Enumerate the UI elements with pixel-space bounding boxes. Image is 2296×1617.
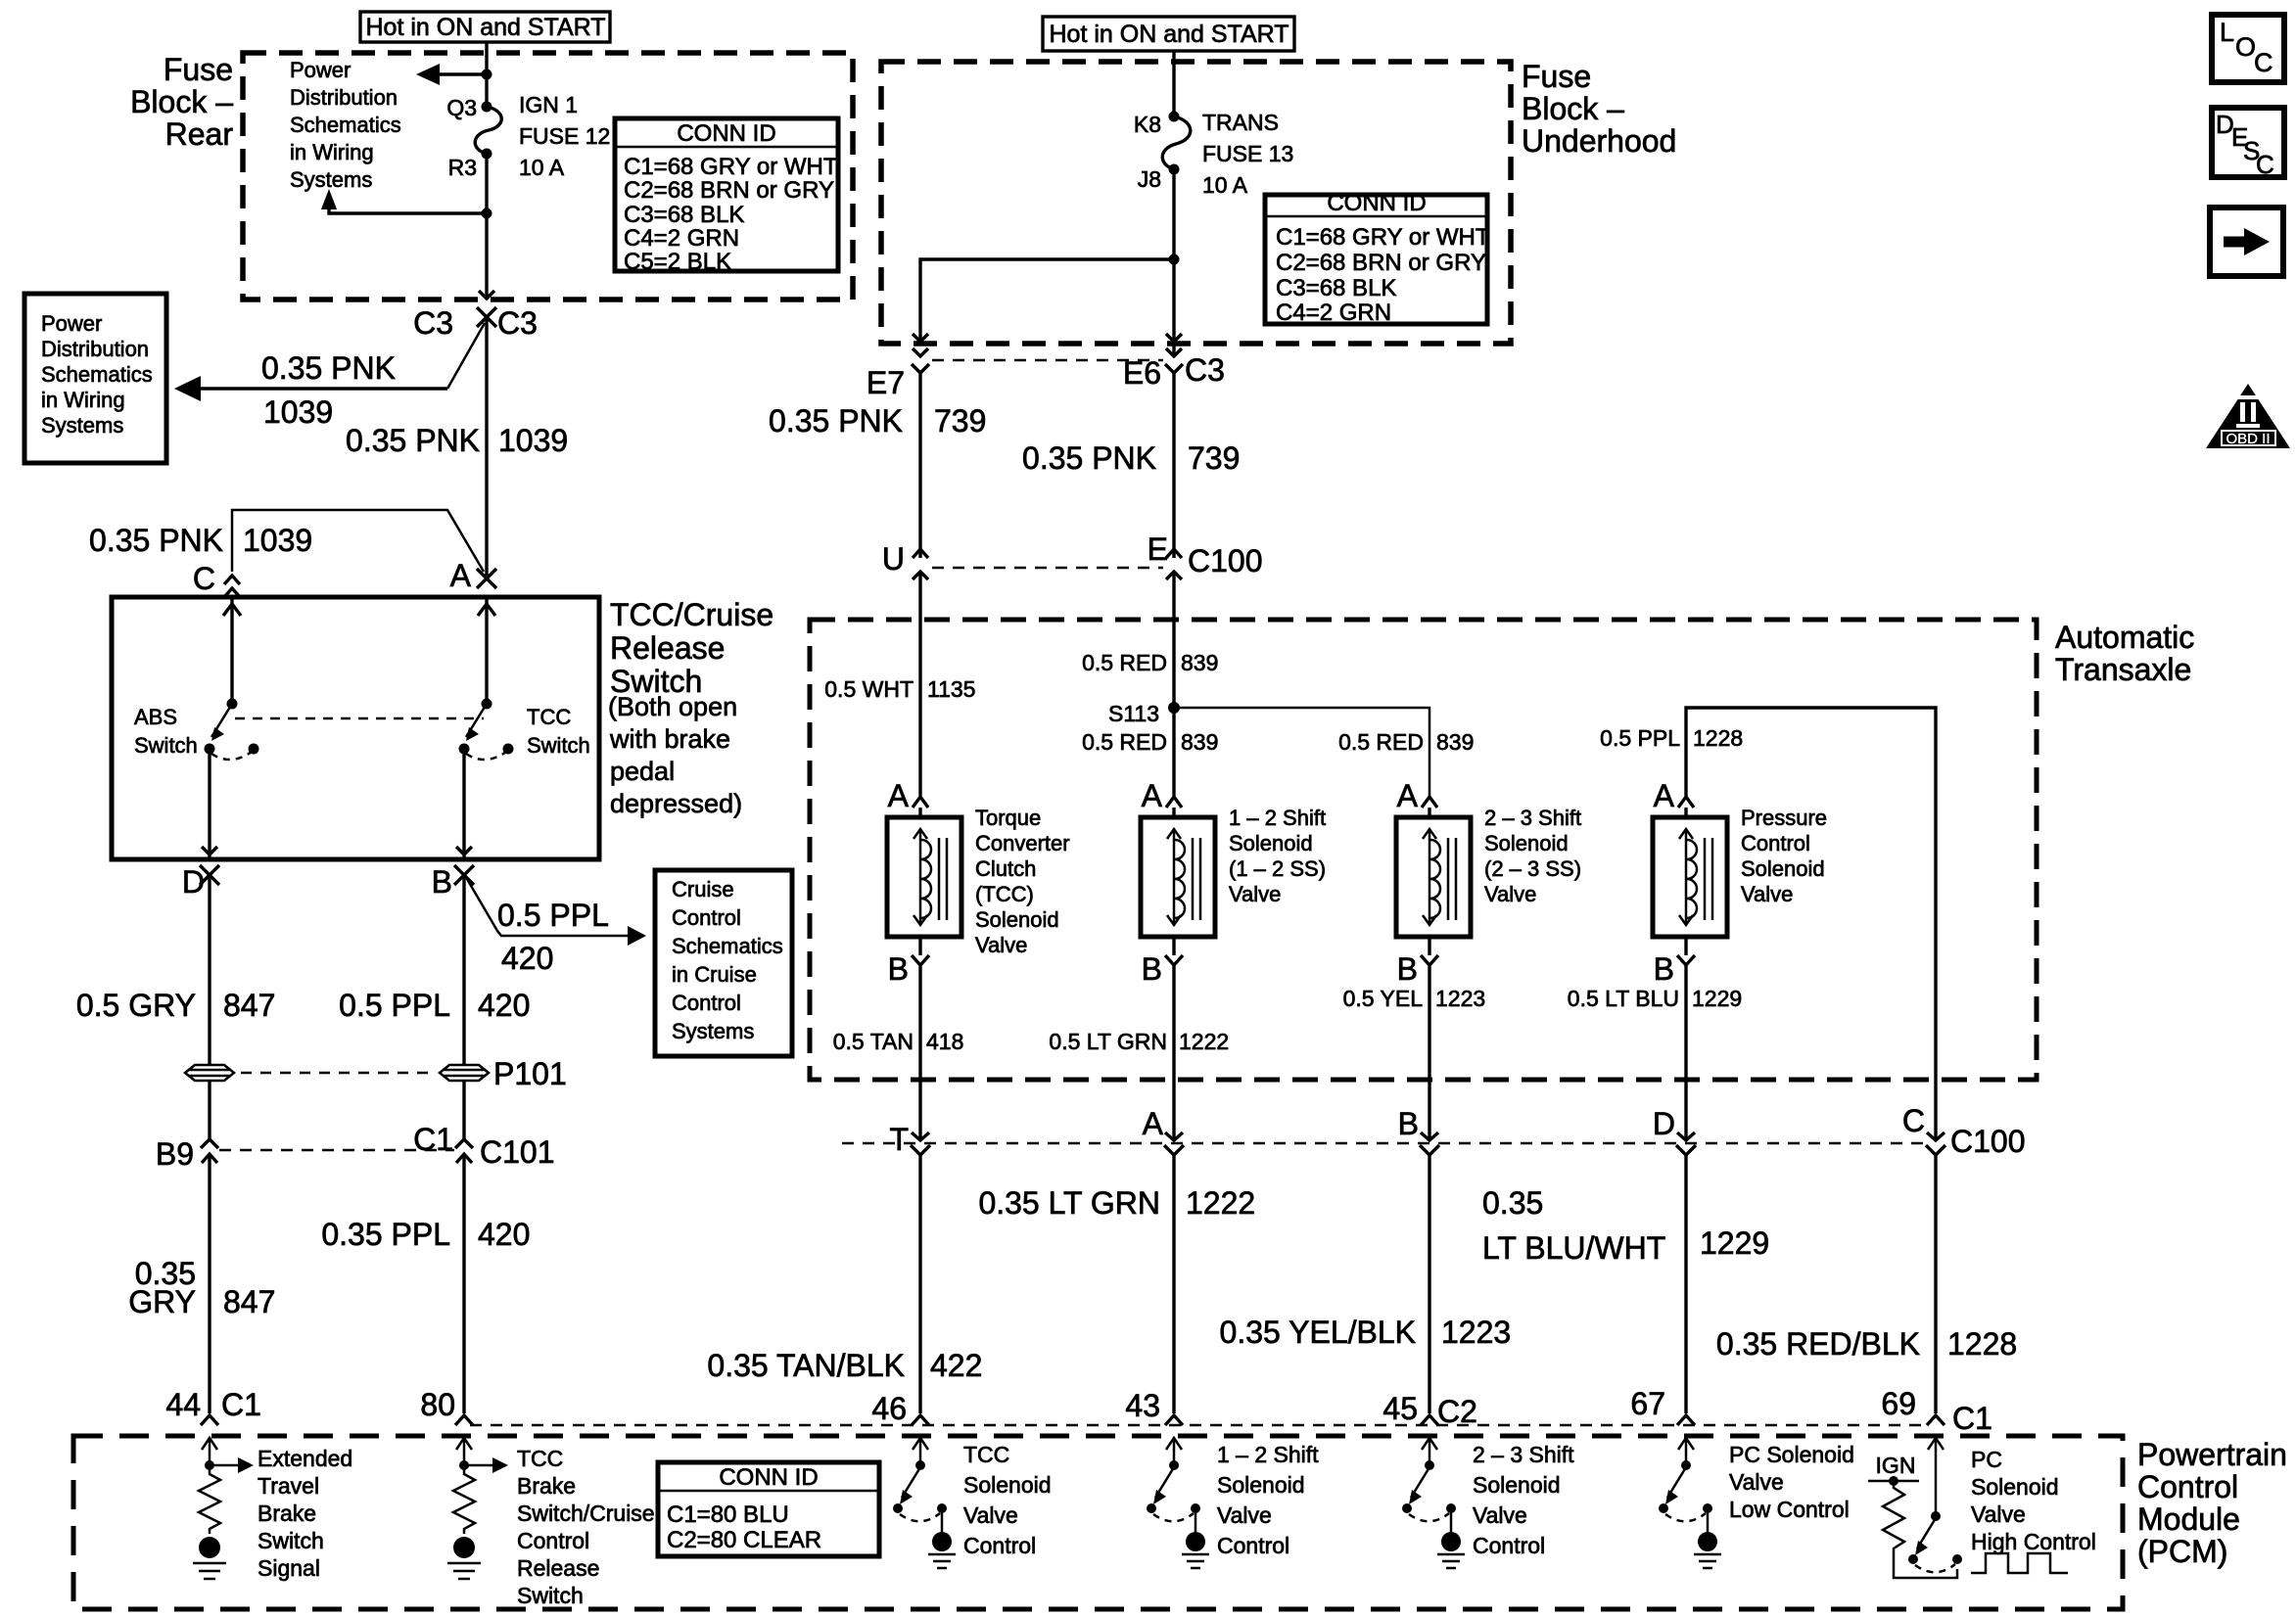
icon: arrow box — [2210, 208, 2283, 276]
label: 0.5 GRY | 847 — [76, 988, 276, 1023]
svg-text:B: B — [1398, 1106, 1419, 1141]
dashed connector line E7-E6 — [932, 359, 1163, 362]
svg-text:739: 739 — [934, 403, 986, 439]
resistor (pin 80 pulldown) — [453, 1465, 475, 1534]
svg-text:Fuse: Fuse — [1522, 59, 1591, 94]
svg-text:Module: Module — [2137, 1501, 2240, 1537]
svg-text:Block –: Block – — [130, 84, 233, 119]
wire: B column 0.5 PPL 420 — [462, 875, 465, 1064]
svg-text:67: 67 — [1630, 1386, 1665, 1421]
label: pin 45 C2 — [1382, 1391, 1477, 1429]
svg-text:0.5 RED: 0.5 RED — [1082, 650, 1167, 675]
thin dashed PCM connector line — [470, 1424, 1929, 1427]
box: Power Distribution Schematics in Wiring Systems — [24, 294, 166, 463]
svg-text:Solenoid: Solenoid — [1473, 1472, 1561, 1498]
svg-text:IGN 1: IGN 1 — [519, 92, 578, 117]
svg-text:69: 69 — [1881, 1386, 1916, 1421]
connector A (C100) — [1143, 1106, 1184, 1155]
svg-text:IGN: IGN — [1876, 1453, 1916, 1478]
svg-text:C4=2 GRN: C4=2 GRN — [1276, 300, 1391, 326]
svg-text:Fuse: Fuse — [164, 52, 233, 87]
svg-text:Systems: Systems — [290, 167, 372, 192]
solenoid: Pressure Control Solenoid Valve — [1653, 778, 1727, 987]
label: 0.5 LT BLU | 1229 — [1568, 986, 1742, 1011]
svg-text:Torque: Torque — [975, 806, 1041, 830]
label: 2-3 Shift Solenoid Valve Control — [1473, 1442, 1574, 1558]
connector B — [432, 864, 474, 900]
label: pin 44 C1 — [165, 1387, 261, 1422]
svg-text:Release: Release — [610, 630, 725, 666]
svg-text:847: 847 — [223, 1284, 275, 1319]
square wave symbol — [1971, 1553, 2068, 1573]
svg-text:Valve: Valve — [1217, 1502, 1272, 1528]
label: TRANS FUSE 13 10 A — [1202, 110, 1293, 198]
svg-text:E7: E7 — [867, 365, 905, 400]
svg-text:Schematics: Schematics — [290, 113, 401, 137]
svg-text:A: A — [1143, 1106, 1164, 1141]
svg-text:A: A — [1142, 778, 1163, 813]
pass-through grommet P101 (right) — [440, 1065, 489, 1081]
CONN ID table (underhood fuse block) — [1265, 190, 1490, 326]
svg-text:B9: B9 — [156, 1136, 194, 1172]
label: 1-2 Shift Solenoid Valve Control — [1217, 1442, 1319, 1558]
ground (pin 80) — [447, 1537, 481, 1579]
svg-text:B: B — [1654, 951, 1674, 987]
svg-text:Switch: Switch — [517, 1583, 584, 1608]
label: 0.35 YEL/BLK | 1223 — [1220, 1315, 1512, 1350]
svg-text:Pressure: Pressure — [1741, 806, 1827, 830]
label: 0.35 PPL | 420 — [321, 1217, 530, 1252]
label: Torque Converter Clutch (TCC) Solenoid Valve — [975, 806, 1070, 957]
fuse block underhood dashed box — [881, 62, 1511, 344]
svg-text:0.5 PPL: 0.5 PPL — [339, 988, 450, 1023]
svg-text:739: 739 — [1188, 440, 1240, 476]
svg-text:0.35 PNK: 0.35 PNK — [769, 403, 903, 439]
svg-text:1228: 1228 — [1947, 1326, 2017, 1362]
arrow: main wire exits underhood fuse block — [1166, 334, 1182, 342]
svg-text:46: 46 — [871, 1391, 907, 1426]
svg-text:TCC: TCC — [527, 705, 571, 729]
svg-text:FUSE 13: FUSE 13 — [1202, 141, 1293, 166]
wire: E6 down to E — [1172, 373, 1175, 558]
svg-text:Q3: Q3 — [446, 95, 477, 120]
label: ABS Switch — [134, 705, 198, 758]
svg-text:0.35 PNK: 0.35 PNK — [346, 423, 480, 458]
svg-text:B: B — [1142, 951, 1162, 987]
svg-text:Converter: Converter — [975, 831, 1070, 855]
svg-text:Systems: Systems — [41, 413, 123, 438]
dashed gang link between ABS and TCC switches — [235, 717, 484, 720]
svg-text:C2=68 BRN or GRY: C2=68 BRN or GRY — [1276, 250, 1486, 276]
svg-text:1 – 2 Shift: 1 – 2 Shift — [1229, 806, 1326, 830]
icon: OBD II triangle — [2206, 384, 2290, 448]
label: 1-2 Shift Solenoid (1-2 SS) Valve — [1229, 806, 1326, 906]
svg-text:Valve: Valve — [1473, 1502, 1527, 1528]
wire: TCC solenoid B down — [918, 965, 921, 1139]
svg-text:0.5 PPL: 0.5 PPL — [497, 898, 609, 933]
resistor (pin 44 pulldown) — [199, 1465, 220, 1534]
svg-text:Valve: Valve — [1729, 1469, 1784, 1495]
label: TCC Switch — [527, 705, 590, 758]
svg-text:839: 839 — [1436, 729, 1474, 755]
svg-text:D: D — [1653, 1106, 1675, 1141]
svg-text:with brake: with brake — [609, 724, 730, 754]
svg-text:Block –: Block – — [1522, 91, 1624, 126]
pin chevron 45 — [1421, 1415, 1438, 1425]
svg-text:C3=68 BLK: C3=68 BLK — [624, 202, 744, 228]
wire: branch to power distribution (left arrow) — [416, 64, 487, 85]
svg-text:B: B — [1397, 951, 1418, 987]
Powertrain Control Module dashed box — [73, 1436, 2123, 1609]
svg-text:1228: 1228 — [1693, 725, 1743, 751]
PCM driver pin 45: 2-3 shift solenoid valve control — [1402, 1438, 1465, 1568]
label: 0.35 GRY | 847 — [128, 1256, 275, 1319]
fuse F13 TRANS (K8/J8 terminals) — [1162, 112, 1191, 175]
svg-text:0.5 WHT: 0.5 WHT — [824, 676, 914, 702]
svg-text:Control: Control — [672, 905, 741, 930]
svg-text:K8: K8 — [1134, 112, 1161, 137]
svg-text:Solenoid: Solenoid — [1484, 831, 1569, 855]
svg-text:P101: P101 — [493, 1056, 567, 1091]
svg-text:CONN ID: CONN ID — [1327, 190, 1426, 216]
connector T (C100) — [889, 1122, 930, 1157]
svg-text:Distribution: Distribution — [290, 85, 398, 110]
junction node at top feed — [482, 69, 492, 80]
svg-text:0.35 PNK: 0.35 PNK — [1022, 440, 1156, 476]
svg-text:847: 847 — [223, 988, 275, 1023]
svg-text:44: 44 — [165, 1387, 201, 1422]
svg-text:45: 45 — [1382, 1391, 1418, 1426]
svg-text:B: B — [432, 864, 452, 900]
svg-text:(2 – 3 SS): (2 – 3 SS) — [1484, 856, 1581, 881]
svg-text:1039: 1039 — [243, 523, 312, 558]
svg-text:0.5 LT GRN: 0.5 LT GRN — [1049, 1029, 1167, 1054]
svg-text:in Wiring: in Wiring — [41, 388, 125, 412]
svg-text:2 – 3 Shift: 2 – 3 Shift — [1473, 1442, 1574, 1467]
svg-text:1222: 1222 — [1179, 1029, 1229, 1054]
wire: D column 0.5 GRY 847 — [208, 875, 211, 1064]
svg-text:Switch: Switch — [527, 733, 590, 758]
svg-text:0.35 YEL/BLK: 0.35 YEL/BLK — [1220, 1315, 1416, 1350]
Automatic Transaxle dashed box — [810, 620, 2037, 1080]
pin chevron 69 — [1927, 1415, 1945, 1425]
svg-text:Control: Control — [1473, 1533, 1545, 1558]
svg-text:Control: Control — [1741, 831, 1810, 855]
connector C3 (rear fuse block to harness) — [413, 305, 538, 341]
svg-text:Systems: Systems — [672, 1019, 754, 1043]
svg-text:1223: 1223 — [1435, 986, 1485, 1011]
svg-text:TCC: TCC — [963, 1442, 1009, 1467]
svg-text:T: T — [889, 1122, 909, 1157]
svg-text:Power: Power — [290, 58, 351, 82]
svg-text:Switch/Cruise: Switch/Cruise — [517, 1501, 655, 1526]
svg-text:0.5 RED: 0.5 RED — [1082, 729, 1167, 755]
svg-text:Solenoid: Solenoid — [975, 907, 1059, 932]
label: 0.35 LT GRN | 1222 — [978, 1185, 1255, 1221]
label: pin 69 C1 — [1881, 1386, 1992, 1436]
svg-text:Solenoid: Solenoid — [1741, 856, 1825, 881]
label: Fuse Block - Underhood — [1522, 59, 1676, 159]
connector E6 / C3 (underhood) — [1123, 348, 1225, 391]
TCC switch — [459, 699, 514, 761]
dashed link between P101 grommets — [241, 1072, 433, 1075]
label: PC Solenoid Valve High Control — [1971, 1447, 2096, 1554]
svg-text:C100: C100 — [1188, 543, 1263, 578]
svg-text:C: C — [2254, 48, 2273, 77]
svg-text:Solenoid: Solenoid — [1971, 1474, 2059, 1500]
svg-text:Power: Power — [41, 311, 102, 336]
PCM input pin 44: extended travel brake switch signal — [202, 1438, 254, 1473]
icon: DESC box — [2212, 108, 2284, 179]
svg-text:C101: C101 — [480, 1134, 555, 1170]
pin chevron 67 — [1677, 1415, 1695, 1425]
svg-text:pedal: pedal — [610, 757, 675, 786]
svg-text:0.35 RED/BLK: 0.35 RED/BLK — [1716, 1326, 1920, 1362]
svg-text:High Control: High Control — [1971, 1529, 2096, 1554]
svg-text:L: L — [2220, 18, 2234, 47]
label: 0.35 LT BLU/WHT | 1229 — [1482, 1185, 1769, 1266]
svg-text:Control: Control — [1217, 1533, 1289, 1558]
svg-text:0.5 PPL: 0.5 PPL — [1600, 725, 1680, 751]
svg-text:Valve: Valve — [1971, 1501, 2026, 1527]
junction node on fuse 13 output — [1169, 254, 1180, 265]
svg-text:Hot in ON and START: Hot in ON and START — [366, 14, 606, 41]
wire: 1-2 solenoid B down — [1172, 965, 1175, 1139]
splice S113 — [1108, 701, 1180, 726]
svg-text:A: A — [450, 558, 472, 593]
svg-text:Control: Control — [2137, 1469, 2238, 1504]
wire: main 0.35 PNK 1039 down to connector A — [485, 317, 488, 576]
svg-text:0.5 YEL: 0.5 YEL — [1343, 986, 1424, 1011]
wire: PC solenoid B down — [1684, 965, 1687, 1139]
wire: A down to PCM pin 43 — [1172, 1155, 1175, 1413]
wire: B down to PCM pin 45 — [1428, 1155, 1430, 1413]
wire: E7 down to U — [918, 373, 921, 558]
svg-text:Control: Control — [963, 1533, 1036, 1558]
wire: D column below P101 — [208, 1081, 211, 1139]
svg-text:(TCC): (TCC) — [975, 882, 1034, 906]
wire: C down to PCM pin 69 — [1934, 1155, 1937, 1413]
svg-text:R3: R3 — [448, 155, 477, 180]
wire: fuse 13 output down — [1172, 169, 1175, 354]
pin chevron 43 — [1165, 1415, 1183, 1425]
wire: branch left to E7 — [913, 259, 1174, 342]
label: 2-3 Shift Solenoid (2-3 SS) Valve — [1484, 806, 1581, 906]
svg-text:TCC/Cruise: TCC/Cruise — [610, 597, 773, 632]
wire: C input into ABS switch — [223, 597, 241, 704]
svg-text:0.35 PNK: 0.35 PNK — [261, 350, 396, 386]
TCC/Cruise Release Switch box — [112, 597, 599, 859]
svg-text:43: 43 — [1125, 1388, 1160, 1423]
svg-text:U: U — [882, 541, 905, 577]
svg-text:C2=68 BRN or GRY: C2=68 BRN or GRY — [624, 177, 834, 204]
svg-text:A: A — [1397, 778, 1419, 813]
svg-text:C2: C2 — [1437, 1394, 1477, 1429]
svg-text:Travel: Travel — [258, 1473, 319, 1499]
svg-text:418: 418 — [926, 1029, 963, 1054]
svg-text:1229: 1229 — [1700, 1225, 1769, 1261]
wire: A input into TCC switch — [478, 597, 495, 704]
svg-text:C2=80 CLEAR: C2=80 CLEAR — [667, 1527, 821, 1553]
svg-text:0.35 TAN/BLK: 0.35 TAN/BLK — [707, 1348, 905, 1383]
svg-text:1039: 1039 — [498, 423, 568, 458]
label: 0.35 PNK | 1039 (branch wire) — [89, 523, 312, 558]
svg-text:Signal: Signal — [258, 1555, 320, 1581]
label: Automatic Transaxle — [2055, 620, 2194, 687]
wire: fuse 12 output down through fuse block — [485, 154, 488, 300]
dashed connector line U-E — [932, 567, 1163, 570]
solenoid U: Torque Converter Clutch (TCC) Solenoid Valve — [887, 778, 961, 987]
svg-text:C1: C1 — [221, 1387, 261, 1422]
svg-text:Control: Control — [517, 1528, 589, 1553]
PCM driver pin 46: TCC solenoid valve control — [893, 1438, 956, 1568]
svg-text:Valve: Valve — [975, 933, 1027, 957]
svg-text:Schematics: Schematics — [41, 362, 153, 387]
wire: B column below P101 — [462, 1081, 465, 1139]
svg-text:10 A: 10 A — [519, 155, 565, 180]
pin chevron 46 — [912, 1415, 929, 1425]
svg-text:420: 420 — [478, 1217, 530, 1252]
label: Extended Travel Brake Switch Signal — [258, 1446, 352, 1581]
svg-text:TRANS: TRANS — [1202, 110, 1279, 135]
svg-text:839: 839 — [1181, 729, 1218, 755]
solenoid: 1-2 Shift Solenoid (1-2 SS) Valve — [1141, 778, 1215, 987]
label: 0.5 RED | 839 (above S113) — [1082, 650, 1218, 675]
wire: ABS switch to D with exit arrow — [202, 749, 217, 859]
svg-text:C4=2 GRN: C4=2 GRN — [624, 225, 739, 252]
svg-text:E: E — [1148, 531, 1168, 567]
svg-text:Solenoid: Solenoid — [1229, 831, 1313, 855]
label: 0.5 PPL | 1228 — [1600, 725, 1743, 751]
svg-text:Valve: Valve — [1484, 882, 1536, 906]
svg-text:80: 80 — [420, 1387, 455, 1422]
svg-text:Automatic: Automatic — [2055, 620, 2194, 655]
label: 0.5 PPL | 420 — [339, 988, 530, 1023]
svg-text:C: C — [1902, 1103, 1925, 1138]
wire: 0.5 PPL 420 branch to cruise control schematics — [467, 879, 646, 946]
svg-text:C1=80 BLU: C1=80 BLU — [667, 1501, 789, 1528]
svg-text:1039: 1039 — [263, 394, 333, 430]
svg-text:TCC: TCC — [517, 1446, 563, 1471]
svg-text:GRY: GRY — [128, 1284, 196, 1319]
label: IGN 1 FUSE 12 10 A — [519, 92, 610, 180]
pass-through grommet P101 (left) — [185, 1065, 234, 1081]
svg-text:Brake: Brake — [517, 1473, 576, 1499]
svg-text:10 A: 10 A — [1202, 172, 1248, 198]
svg-text:Transaxle: Transaxle — [2055, 652, 2191, 687]
svg-text:A: A — [1654, 778, 1675, 813]
wire: 2-3 solenoid B down — [1428, 965, 1430, 1139]
svg-text:Powertrain: Powertrain — [2137, 1437, 2287, 1472]
svg-text:Valve: Valve — [963, 1502, 1018, 1528]
svg-text:0.5 RED: 0.5 RED — [1338, 729, 1424, 755]
svg-text:Switch: Switch — [258, 1528, 324, 1553]
svg-text:in Wiring: in Wiring — [290, 140, 374, 164]
svg-text:C3: C3 — [1185, 352, 1225, 388]
svg-text:J8: J8 — [1138, 166, 1161, 192]
svg-text:C1: C1 — [1952, 1401, 1992, 1436]
label: 0.5 YEL | 1223 — [1343, 986, 1486, 1011]
svg-text:Release: Release — [517, 1555, 599, 1581]
wire: T down to PCM pin 46 — [918, 1155, 921, 1413]
svg-text:Schematics: Schematics — [672, 934, 783, 958]
svg-text:1 – 2 Shift: 1 – 2 Shift — [1217, 1442, 1319, 1467]
svg-text:1223: 1223 — [1441, 1315, 1511, 1350]
svg-text:FUSE 12: FUSE 12 — [519, 123, 610, 149]
svg-text:Distribution: Distribution — [41, 337, 149, 361]
svg-text:C3: C3 — [497, 305, 538, 341]
wire: branch left with up arrow to Power Distribution text — [321, 189, 487, 213]
svg-text:C5=2 BLK: C5=2 BLK — [624, 249, 731, 275]
fuse block rear dashed box — [243, 53, 853, 300]
svg-text:S113: S113 — [1108, 701, 1159, 726]
fuse F12 IGN 1 (Q3/R3 terminals) — [475, 102, 501, 160]
svg-text:Low Control: Low Control — [1729, 1497, 1850, 1522]
label box: Hot in ON and START (underhood fuse block) — [1043, 17, 1294, 51]
label: 0.35 PNK / 1039 (arrow to power distribution) — [261, 350, 396, 430]
label: 0.5 TAN | 418 — [833, 1029, 964, 1054]
svg-text:0.5 TAN: 0.5 TAN — [833, 1029, 914, 1054]
label: Fuse Block - Rear — [130, 52, 233, 152]
IGN feed bar and resistor — [1868, 1476, 1957, 1578]
svg-text:(Both open: (Both open — [608, 692, 737, 721]
svg-text:ABS: ABS — [134, 705, 177, 729]
svg-text:Rear: Rear — [165, 116, 234, 152]
svg-text:Underhood: Underhood — [1522, 123, 1676, 159]
wire: ignition feed from hot bus down to fuse 12 — [485, 42, 488, 107]
svg-text:PC Solenoid: PC Solenoid — [1729, 1442, 1854, 1467]
PCM driver pin 67: PC solenoid valve low control — [1659, 1438, 1721, 1568]
svg-text:Brake: Brake — [258, 1501, 316, 1526]
wire: TCC switch to B with exit arrow — [456, 749, 472, 859]
wire: 0.5 WHT 1135 down to TCC solenoid — [918, 572, 921, 796]
svg-text:0.35 PNK: 0.35 PNK — [89, 523, 223, 558]
connector D — [182, 864, 219, 900]
label: TCC Brake Switch/Cruise Control Release Switch — [517, 1446, 655, 1608]
connector E7 (C3 underhood) — [867, 348, 929, 400]
CONN ID table (PCM) — [658, 1462, 879, 1556]
svg-text:1135: 1135 — [927, 676, 975, 702]
svg-text:0.35 LT GRN: 0.35 LT GRN — [978, 1185, 1160, 1221]
label: Pressure Control Solenoid Valve — [1741, 806, 1827, 906]
svg-text:C1: C1 — [413, 1122, 453, 1157]
wire: PC solenoid feed loop 0.5 PPL 1228 — [1686, 708, 1936, 1139]
svg-text:422: 422 — [930, 1348, 982, 1383]
svg-text:PC: PC — [1971, 1447, 2002, 1472]
svg-text:0.35: 0.35 — [1482, 1185, 1543, 1221]
label: 0.35 RED/BLK | 1228 — [1716, 1326, 2017, 1362]
label: 0.5 PPL / 420 (cruise branch) — [497, 898, 609, 976]
connector C101 dashed line — [219, 1149, 454, 1152]
icon: LOC box — [2212, 15, 2284, 82]
connector C100 bottom dashed line — [842, 1142, 1925, 1145]
svg-text:C100: C100 — [1950, 1124, 2026, 1159]
PCM input pin 80: TCC brake switch — [456, 1438, 508, 1473]
svg-text:Control: Control — [672, 991, 741, 1015]
svg-text:CONN ID: CONN ID — [677, 120, 775, 147]
CONN ID table (rear fuse block) — [615, 118, 838, 275]
pin chevron 80 — [455, 1415, 473, 1425]
svg-text:1229: 1229 — [1692, 986, 1742, 1011]
box: Cruise Control Schematics in Cruise Control Systems — [655, 870, 792, 1056]
label: 0.5 WHT | 1135 — [824, 676, 975, 702]
svg-text:1222: 1222 — [1186, 1185, 1255, 1221]
svg-text:(PCM): (PCM) — [2137, 1534, 2227, 1569]
svg-text:Solenoid: Solenoid — [1217, 1472, 1305, 1498]
svg-text:OBD II: OBD II — [2226, 431, 2270, 447]
label: TCC/Cruise Release Switch (Both open with brake pedal depressed) — [608, 597, 773, 818]
svg-text:Solenoid: Solenoid — [963, 1472, 1052, 1498]
